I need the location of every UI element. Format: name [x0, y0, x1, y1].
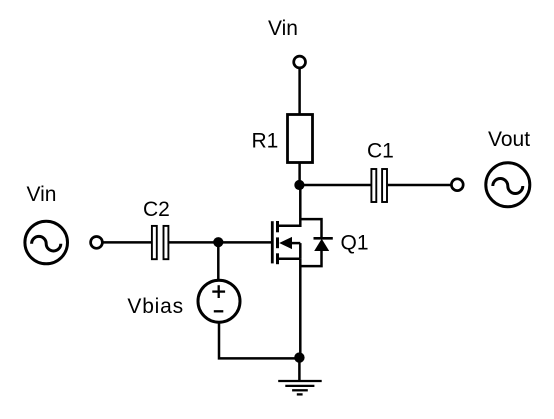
svg-text:Vout: Vout — [488, 128, 530, 151]
wire drain node to C1 — [299, 184, 370, 187]
capacitor C1 — [371, 169, 387, 202]
body arrow — [279, 237, 292, 249]
voltage source Vbias — [198, 280, 240, 322]
source connection — [278, 258, 301, 261]
svg-text:Vin: Vin — [27, 183, 57, 206]
channel segment top — [276, 221, 279, 232]
wire gate node to Vbias — [217, 242, 220, 280]
body to source vertical — [299, 243, 302, 259]
terminal Vout — [451, 179, 463, 191]
wire source vertical — [299, 259, 302, 359]
body diode of Q1 — [300, 219, 333, 266]
wire C2 to gate node — [169, 241, 219, 244]
terminal Vin top — [294, 56, 306, 68]
svg-text:Vbias: Vbias — [127, 295, 184, 318]
diode branch bottom wire — [300, 251, 321, 267]
body wire — [291, 242, 300, 245]
svg-text:Vin: Vin — [268, 17, 298, 40]
capacitor C2 — [152, 226, 169, 259]
channel segment middle — [276, 237, 279, 248]
AC source symbol Vin — [25, 221, 68, 264]
wire terminal to C2 — [103, 241, 152, 244]
transistor Q1 MOSFET — [272, 221, 300, 264]
svg-text:C2: C2 — [143, 198, 170, 221]
svg-text:Q1: Q1 — [341, 232, 369, 255]
terminal Vin left — [91, 237, 103, 249]
wire C1 to Vout terminal — [388, 184, 451, 187]
wire Vbias to bottom rail — [219, 322, 299, 358]
resistor R1 — [288, 115, 313, 163]
diode branch top wire — [300, 219, 321, 238]
ground — [278, 381, 322, 394]
svg-text:R1: R1 — [252, 130, 279, 153]
node gate junction dot — [213, 237, 223, 247]
channel segment bottom — [276, 253, 279, 264]
wire terminal to R1 — [298, 69, 301, 115]
wire R1 to drain node — [298, 163, 301, 187]
wire drain vertical — [299, 185, 302, 227]
node source junction dot — [294, 352, 304, 362]
diode cathode bar — [314, 237, 333, 240]
drain connection — [278, 225, 301, 228]
wire node to ground — [298, 358, 301, 381]
diode triangle — [314, 239, 329, 251]
svg-text:C1: C1 — [367, 140, 394, 163]
wire gate lead — [218, 241, 271, 244]
gate bar — [271, 221, 274, 263]
node drain junction dot — [294, 180, 304, 190]
AC source symbol Vout — [486, 163, 530, 207]
